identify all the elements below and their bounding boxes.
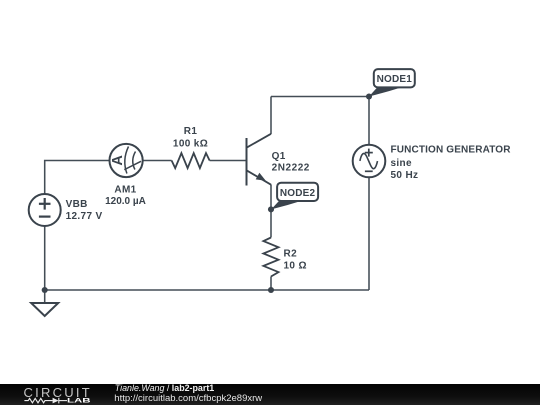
wire Q1 emitter to R2	[270, 185, 272, 238]
ammeter AM1	[110, 144, 143, 177]
svg-text:A: A	[110, 155, 126, 166]
svg-text:120.0 µA: 120.0 µA	[105, 196, 146, 207]
svg-text:AM1: AM1	[114, 185, 136, 196]
wire R1 to Q1 base	[210, 160, 247, 162]
node dot NODE1	[366, 93, 372, 99]
wire R2 bottom to rail	[270, 277, 272, 291]
wire top rail to NODE1	[271, 96, 369, 98]
svg-text:R1: R1	[184, 126, 198, 137]
svg-text:12.77 V: 12.77 V	[66, 211, 103, 222]
resistor R1	[172, 153, 210, 168]
svg-text:100 kΩ: 100 kΩ	[173, 138, 208, 149]
flag NODE1	[369, 69, 415, 96]
ground	[31, 303, 58, 316]
svg-text:Q1: Q1	[272, 151, 286, 162]
flag NODE2	[271, 183, 318, 210]
node dot NODE2	[268, 206, 274, 212]
svg-text:50 Hz: 50 Hz	[391, 170, 419, 181]
wire bottom rail	[45, 289, 369, 291]
function generator V1	[353, 145, 386, 178]
svg-text:LAB: LAB	[67, 398, 91, 405]
wire Q1 collector up	[270, 97, 272, 135]
wire NODE1 down to function generator	[368, 97, 370, 145]
resistor R2	[263, 238, 278, 277]
svg-text:NODE2: NODE2	[280, 188, 316, 199]
CircuitLab logo	[0, 384, 100, 405]
svg-text:2N2222: 2N2222	[272, 163, 310, 174]
wire function generator bottom to rail	[368, 177, 370, 290]
svg-text:FUNCTION GENERATOR: FUNCTION GENERATOR	[391, 145, 512, 156]
node dot at VBB rail junction	[42, 287, 48, 293]
node dot at R2 rail junction	[268, 287, 274, 293]
transistor Q1	[247, 134, 272, 186]
voltage source VBB	[29, 194, 61, 226]
wire VBB bottom to ground	[44, 226, 46, 303]
svg-text:sine: sine	[391, 158, 412, 169]
svg-text:R2: R2	[284, 249, 298, 260]
svg-text:NODE1: NODE1	[377, 74, 413, 85]
wire ammeter to R1	[143, 160, 172, 162]
wire VBB top to ammeter	[45, 161, 110, 195]
footer bar	[0, 384, 540, 405]
svg-text:VBB: VBB	[66, 199, 88, 210]
svg-text:10 Ω: 10 Ω	[284, 261, 307, 272]
